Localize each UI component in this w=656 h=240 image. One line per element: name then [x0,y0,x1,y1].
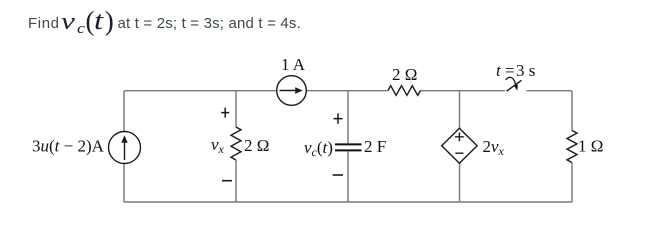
plus sign dependent source [455,132,464,141]
switch S1 blade [507,80,522,91]
svg-text:2vx: 2vx [483,137,505,158]
svg-text:2 Ω: 2 Ω [244,136,269,155]
wire capacitor branch [347,91,349,202]
label vc(t) [304,138,333,159]
title text: Find vc(t) at t = 2s; t = 3s; and t = 4s. [28,16,60,31]
current source I1 arrowhead [121,135,127,143]
wire vx resistor branch [235,91,237,202]
wire switch to top right corner [527,90,573,92]
svg-text:1 Ω: 1 Ω [578,137,603,156]
resistor R2 2ohm horizontal zigzag [388,86,421,96]
current source I1 3u(t-2)A circle [109,132,141,164]
resistor R1 2ohm (vx) zigzag [231,127,241,160]
wire left vertical [123,91,125,202]
wire right vertical [571,91,573,202]
label 1A [281,55,306,74]
wire dependent source branch [459,91,461,202]
label 2ohm (top resistor) [392,65,417,84]
minus sign dependent source [455,152,463,154]
label 2ohm (vx resistor) [244,136,269,155]
svg-text:3u(t − 2)A: 3u(t − 2)A [32,137,105,156]
plus sign vx [221,108,229,118]
svg-text:vc(t): vc(t) [304,138,333,159]
svg-text:2 F: 2 F [364,137,386,156]
capacitor C1 plates [335,144,362,150]
dependent source E1 diamond [442,128,477,163]
wire top left segment [124,90,277,92]
current source I2 1A circle [277,76,307,106]
label t=3s [496,61,535,80]
label 2vx [483,137,505,158]
plus sign capacitor [334,113,343,123]
label 3u(t-2)A [32,137,105,156]
switch S1 closing arc [506,77,516,85]
minus sign vx [222,180,232,182]
label vx [211,135,225,156]
svg-text:vx: vx [211,135,225,156]
label 2F [364,137,386,156]
switch S1 arrowhead [514,85,518,91]
svg-text:t=3s: t=3s [496,61,535,80]
label 1ohm [578,137,603,156]
svg-text:2 Ω: 2 Ω [392,65,417,84]
wire top right of resistor to switch [421,90,506,92]
svg-text:1 A: 1 A [281,55,306,74]
resistor R3 1ohm zigzag [567,131,577,163]
wire top middle segment [307,90,389,92]
wire bottom [124,201,572,203]
minus sign capacitor [333,174,343,176]
current source I2 arrowhead [295,87,303,93]
